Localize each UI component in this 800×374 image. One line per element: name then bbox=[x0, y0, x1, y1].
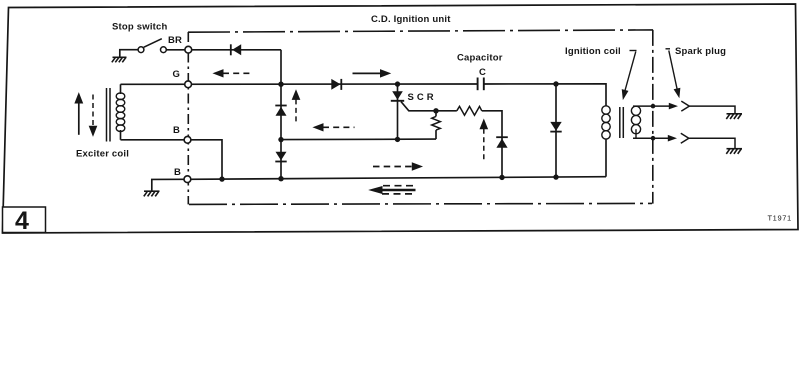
ignition coil primary winding bbox=[602, 106, 610, 139]
svg-text:G: G bbox=[173, 69, 181, 80]
unit boundary right edge bbox=[652, 30, 654, 204]
stop switch contact circles bbox=[138, 47, 144, 53]
exciter coil winding bbox=[116, 93, 125, 132]
node junction bottom row x=222 bbox=[219, 176, 224, 181]
terminal node G bbox=[185, 81, 192, 88]
flow arrow big left (solid+dashed) below bottom row bbox=[370, 186, 416, 194]
diode D1 on BR row (pointing left) bbox=[231, 44, 241, 55]
node junction bottom row x=502 bbox=[499, 175, 504, 180]
terminal node B middle bbox=[184, 136, 191, 143]
wire: switch to BR node and BR row to corner bbox=[166, 49, 281, 51]
svg-text:C.D. Ignition unit: C.D. Ignition unit bbox=[371, 14, 451, 25]
wire: bottom B node to ground bbox=[152, 179, 184, 191]
flow arrow right (dashed) above bottom row bbox=[373, 163, 422, 170]
ignition coil secondary winding bbox=[631, 106, 640, 138]
node junction SCR cathode bbox=[395, 137, 400, 142]
node junction gate resistor bbox=[433, 108, 438, 113]
wire: stop switch ground stub bbox=[120, 50, 138, 58]
wire: diode branch x=556 G row to bottom row bbox=[555, 84, 557, 177]
svg-text:BR: BR bbox=[168, 35, 182, 46]
wire: SCR gate bbox=[401, 102, 436, 111]
flow arrow right (solid) above G row bbox=[353, 70, 390, 77]
spark plug 1 wire to ground bbox=[689, 106, 735, 114]
svg-text:Ignition coil: Ignition coil bbox=[565, 46, 621, 57]
wires bbox=[120, 50, 606, 191]
svg-text:T1971: T1971 bbox=[768, 214, 792, 223]
svg-text:Spark plug: Spark plug bbox=[675, 46, 726, 57]
diode D6 x=556 (pointing down) bbox=[550, 122, 561, 132]
bottom B node ground bbox=[144, 191, 160, 196]
gate resistor R1 (vertical zigzag) bbox=[432, 116, 441, 130]
spark plug 2 ground bbox=[726, 149, 742, 154]
spark plug 1 ground bbox=[726, 114, 742, 119]
diode D5 x=502 (pointing up) bbox=[496, 137, 508, 148]
wire: vertical from BR row down to bottom row at x=281 bbox=[280, 50, 282, 179]
secondary top wire bbox=[633, 105, 670, 107]
wire: G row left (exciter top to capacitor) bbox=[121, 83, 478, 85]
wire: exciter coil bottom to B middle node bbox=[121, 139, 188, 141]
node junction spark wire bottom at unit edge bbox=[651, 136, 656, 141]
spark plug 2 wire to ground bbox=[689, 138, 735, 148]
junction dots bbox=[219, 81, 655, 182]
node junction G row x=556 bbox=[553, 81, 558, 86]
diode D3 lower of stack x=281 (pointing down) bbox=[275, 152, 286, 162]
wire: middle row diode stack to SCR cathode and resistor bbox=[281, 138, 436, 141]
svg-text:S C R: S C R bbox=[408, 92, 434, 103]
flow arrow up (dashed) x=483.8 bbox=[480, 120, 487, 161]
spark plug 1 (top): arrowhead bbox=[669, 103, 678, 110]
flow arrow up (dashed) x=296 bbox=[292, 91, 299, 125]
terminal node B bottom bbox=[184, 176, 191, 183]
diode D2 upper of stack x=281 (pointing up) bbox=[275, 106, 286, 116]
unit boundary bottom edge bbox=[189, 203, 652, 204]
C.D. ignition unit boundary box (dash-dot) bbox=[188, 30, 653, 205]
node junction bottom row x=281 bbox=[278, 176, 283, 181]
flow arrow left (dashed) above G row bbox=[214, 70, 254, 77]
diode D4 on G row (pointing right) bbox=[331, 79, 341, 90]
wire: B middle node to branch corner down bbox=[187, 140, 222, 179]
secondary bottom wire bbox=[633, 137, 669, 139]
exciter coil core bbox=[107, 88, 111, 142]
node junction SCR anode bbox=[395, 81, 400, 86]
spark plug 2 gap electrode chevron bbox=[681, 133, 689, 143]
node junction at G row x=281 bbox=[278, 82, 283, 87]
spark plug 2 (bottom): arrowhead bbox=[668, 135, 677, 142]
terminal node BR bbox=[185, 46, 192, 53]
svg-text:C: C bbox=[479, 67, 486, 78]
svg-text:B: B bbox=[174, 167, 181, 178]
stop switch ground bbox=[112, 57, 127, 62]
stop switch contact blade bbox=[144, 39, 162, 48]
flow arrow left (dashed) y=127 bbox=[314, 124, 355, 131]
spark plug label leader arrow bbox=[666, 49, 680, 97]
ignition coil core bbox=[620, 107, 624, 138]
svg-text:4: 4 bbox=[15, 207, 29, 235]
wire: G row right of capacitor to ignition coil corner bbox=[484, 84, 606, 106]
svg-text:Capacitor: Capacitor bbox=[457, 53, 503, 64]
unit boundary top edge bbox=[188, 30, 653, 32]
unit boundary left edge bbox=[187, 32, 189, 204]
node junction middle row x=281 bbox=[278, 137, 283, 142]
exciter flux arrow down (dashed) bbox=[89, 95, 96, 136]
resistor R2 (horizontal zigzag) bbox=[457, 106, 482, 115]
svg-text:B: B bbox=[173, 125, 180, 136]
exciter flux arrow up (solid) bbox=[75, 94, 82, 135]
node junction bottom row x=556 bbox=[553, 174, 558, 179]
spark plug 1 gap electrode chevron bbox=[681, 101, 689, 111]
SCR (thyristor) bbox=[391, 91, 404, 101]
svg-text:Stop switch: Stop switch bbox=[112, 22, 168, 33]
border frame bbox=[3, 4, 799, 233]
wire: bottom B row bbox=[187, 177, 606, 180]
wire: gate resistor vertical stubs bbox=[435, 111, 437, 117]
svg-text:Exciter coil: Exciter coil bbox=[76, 149, 129, 160]
capacitor C plates bbox=[478, 78, 484, 91]
wire: ignition coil primary bottom stub bbox=[605, 139, 607, 177]
node junction spark wire top at unit edge bbox=[651, 104, 656, 109]
wire: exciter coil stubs bbox=[120, 84, 122, 94]
wire: horizontal resistor leads and drop to diode D bbox=[436, 110, 457, 112]
ignition coil label leader arrow bbox=[622, 51, 636, 99]
wire: SCR anode-cathode vertical bbox=[397, 84, 399, 140]
figure number box bbox=[3, 207, 46, 233]
